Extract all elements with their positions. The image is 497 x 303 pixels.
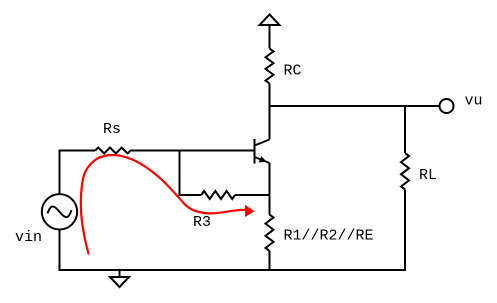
svg-text:vin: vin <box>15 229 42 246</box>
svg-text:R3: R3 <box>193 214 211 231</box>
source vin <box>42 194 77 229</box>
wire: Rs to transistor base <box>131 150 255 152</box>
wire: RC to collector node <box>269 84 271 108</box>
resistor R3 <box>201 191 235 199</box>
transistor Q1 <box>255 139 270 164</box>
svg-text:vu: vu <box>465 93 483 110</box>
resistor RL <box>401 153 409 189</box>
wire: bottom ground rail <box>59 269 407 271</box>
red arrowhead <box>245 205 255 217</box>
terminal vu <box>440 99 454 113</box>
wire: collector up to output node <box>269 107 271 140</box>
wire: RL to bottom rail <box>404 190 406 272</box>
red signal path annotation <box>81 155 245 254</box>
wire: R3 right to emitter line <box>235 194 271 196</box>
resistor R1//R2//RE <box>266 215 274 251</box>
wire: resistor to bottom rail <box>269 251 271 271</box>
wire: base node down to R3 <box>179 151 181 197</box>
power supply VCC symbol <box>260 15 280 26</box>
resistor RC <box>266 49 274 84</box>
wire: supply to RC <box>269 25 271 49</box>
svg-text:RC: RC <box>284 63 302 80</box>
wire: vin top to top rail corner <box>59 150 61 195</box>
wire: bottom rail up to source vin <box>59 230 61 272</box>
svg-text:Rs: Rs <box>103 121 121 138</box>
wire: output node to vu terminal <box>270 105 440 107</box>
wire: emitter down to R1//R2//RE <box>269 163 271 215</box>
ground symbol <box>110 270 129 287</box>
svg-text:R1//R2//RE: R1//R2//RE <box>284 228 374 245</box>
wire: to R3 left <box>179 194 202 196</box>
wire: node to RL <box>404 106 406 153</box>
svg-text:RL: RL <box>419 167 437 184</box>
wire: top-left to Rs <box>59 150 96 152</box>
resistor Rs <box>95 148 130 154</box>
